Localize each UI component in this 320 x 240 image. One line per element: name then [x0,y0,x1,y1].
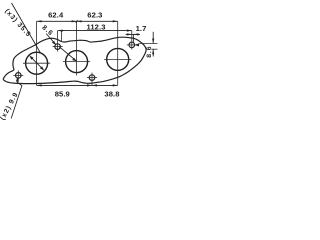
svg-text:85.9: 85.9 [55,90,70,99]
svg-text:1.7: 1.7 [136,24,147,33]
svg-text:62.4: 62.4 [48,10,64,19]
svg-text:62.3: 62.3 [87,10,102,19]
svg-text:112.3: 112.3 [86,22,105,31]
svg-text:38.8: 38.8 [104,90,119,99]
svg-text:8.6: 8.6 [146,46,153,58]
